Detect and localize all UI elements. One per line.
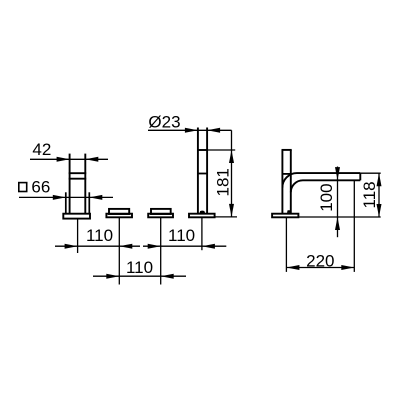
arrow row1b right [202, 244, 215, 249]
arrow 42 right [85, 157, 98, 162]
escutcheon side left [65, 192, 67, 214]
arm outer bend and top edge [282, 173, 360, 188]
riser top cap [282, 149, 292, 151]
riser band tick [282, 173, 290, 175]
svg-text:66: 66 [31, 178, 50, 197]
square symbol 66 [19, 183, 27, 192]
arrow 100 bottom [335, 217, 340, 230]
arrow row1a left [65, 244, 78, 249]
svg-text:220: 220 [306, 252, 334, 271]
row1 left dim line [55, 245, 140, 247]
arrow 66 right [89, 195, 102, 200]
arrow 42 left [57, 157, 70, 162]
dim line 220 [286, 267, 354, 269]
dim line 66 [19, 196, 113, 198]
arrow D23 left [185, 128, 198, 133]
arrow 181 bottom [229, 204, 234, 217]
arrow row1b left [148, 244, 161, 249]
riser base nub [287, 210, 291, 213]
spout top cap [198, 149, 207, 151]
spout right edge [206, 128, 208, 214]
arrow 220 right [341, 265, 354, 270]
arm end cap [359, 173, 361, 180]
deck extension front [215, 216, 237, 218]
outlet center extension [353, 180, 355, 272]
arrow 181 top [229, 150, 234, 163]
deck line right [298, 216, 380, 218]
esc1 center extension [118, 217, 120, 284]
esc2 upper [151, 209, 171, 214]
arm inner bend and bottom edge [291, 180, 361, 192]
spout band [198, 173, 207, 175]
arrow D23 right [207, 128, 220, 133]
svg-text:181: 181 [214, 168, 233, 196]
handle band upper [69, 172, 87, 174]
spout base plate [189, 214, 215, 218]
arrow 100 top [335, 167, 340, 180]
svg-text:118: 118 [360, 181, 379, 208]
arrow 118 top [377, 173, 382, 186]
svg-text:110: 110 [126, 258, 153, 277]
spout base mound [199, 211, 205, 214]
esc1 upper [109, 209, 129, 214]
dim line 100 vertical [337, 167, 339, 238]
spout top extension line [207, 149, 235, 151]
esc1 lower [106, 214, 132, 218]
arrow row1a right [119, 244, 132, 249]
spout left edge [197, 128, 199, 214]
handle right edge [84, 154, 86, 214]
svg-text:42: 42 [32, 140, 51, 159]
handle left edge [69, 154, 71, 214]
svg-text:110: 110 [168, 226, 195, 245]
arrow row2 right [161, 274, 174, 279]
svg-text:110: 110 [86, 226, 113, 245]
riser center extension [285, 217, 287, 272]
escutcheon side right [88, 192, 90, 214]
dim line 118 vertical [378, 173, 380, 217]
handle base plate [63, 214, 90, 219]
side base plate [272, 214, 298, 218]
arm top extension [360, 172, 380, 174]
handle center extension [77, 219, 79, 253]
arrow 118 bottom [377, 204, 382, 217]
riser right edge [290, 150, 292, 214]
arrow row2 left [106, 274, 119, 279]
svg-text:Ø23: Ø23 [148, 112, 180, 131]
arrow 220 left [286, 265, 299, 270]
arrow 66 left [53, 195, 66, 200]
dim line 42 [30, 158, 108, 160]
esc2 lower [148, 214, 173, 218]
row1 right dim line [143, 245, 226, 247]
riser left edge [281, 150, 283, 214]
dim line 181 vertical [231, 130, 233, 217]
row2 dim line [93, 275, 186, 277]
svg-text:100: 100 [317, 183, 336, 211]
dim line D23 [148, 129, 232, 131]
spout center extension [201, 217, 203, 250]
handle band lower [69, 178, 87, 180]
esc2 center extension [160, 217, 162, 284]
